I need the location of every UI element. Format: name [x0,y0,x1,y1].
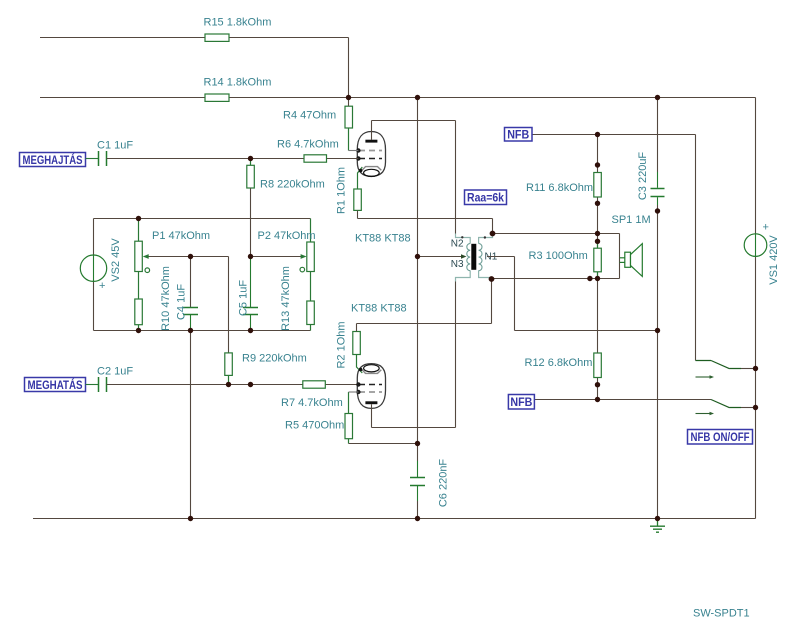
voltage source VS1 420V [744,222,780,285]
node speaker bottom wire-end dot [587,276,592,281]
resistor R4 47Ohm [283,98,358,151]
wire P1 wiper line down to R9 [191,257,229,353]
svg-text:SW-SPDT1: SW-SPDT1 [693,608,750,620]
wire C4 line down to bottom rail [190,331,192,519]
resistor R12 6.8kOhm [525,353,602,378]
node P1 wiper / C4 junction [188,254,193,259]
node bottom rail / C4 column junction [188,516,193,521]
svg-text:KT88 KT88: KT88 KT88 [355,233,411,245]
resistor R8 220kOhm [247,159,325,257]
node B+ rail / ground column junction [655,95,660,100]
resistor R10 47kOhm [135,266,172,331]
node bias bottom rail / C4 junction [188,328,193,333]
wire transformer center tap to B+ [418,254,467,259]
label NFB ON/OFF [688,430,753,445]
node bias bottom rail / C5 junction [248,328,253,333]
node bottom rail / C6 junction [415,516,420,521]
input label MEGHAJTAS [20,152,86,167]
node bias rail / P1 junction [136,216,141,221]
transformer TR1 core [471,244,476,270]
node input2 / R9 junction [226,382,231,387]
svg-text:KT88 KT88: KT88 KT88 [351,303,407,315]
svg-text:C3 220uF: C3 220uF [637,152,649,201]
node rail1/rail2 corner junction [346,95,351,100]
svg-text:R12 6.8kOhm: R12 6.8kOhm [525,357,593,369]
wire input2 to bottom tube grid [107,384,359,386]
wire NFB top run and corner to switch [532,135,696,361]
tube V2 KT88 (bottom) [351,303,407,409]
node R3 bottom / R12 junction [595,276,600,281]
wire bottom tube anode to transformer N3 bottom [372,282,456,428]
wire N1 top to speaker loop [492,234,620,279]
svg-text:R13 47kOhm: R13 47kOhm [280,266,292,331]
resistor R11 6.8kOhm [526,173,601,198]
resistor R7 4.7kOhm [281,381,343,409]
svg-text:C5 1uF: C5 1uF [238,280,250,316]
node input1 / R8 junction [248,156,253,161]
label NFB (bottom box) [508,395,534,410]
wire top rail 1 [40,38,349,98]
capacitor C2 1uF [86,366,134,393]
node R11 top pin [595,162,600,167]
resistor R1 1Ohm [336,167,362,214]
wire P2 wiper line [251,256,304,258]
svg-text:N2: N2 [451,239,464,250]
svg-text:C4 1uF: C4 1uF [176,284,188,320]
svg-text:P1 47kOhm: P1 47kOhm [152,230,210,242]
transformer right winding N1 [479,234,498,280]
capacitor C6 220nF [410,459,450,508]
node R3 chain / speaker top junction [595,231,600,236]
svg-text:R9 220kOhm: R9 220kOhm [242,353,307,365]
wire top tube anode to transformer N2 top [372,121,456,234]
svg-text:NFB: NFB [510,395,532,409]
wire right vertical to VS1 and bottom [755,98,757,519]
svg-text:MEGHATÁS: MEGHATÁS [28,377,83,392]
svg-text:MEGHAJTÁS: MEGHAJTÁS [23,152,83,167]
resistor R5 470Ohm [285,392,358,444]
wire center vertical x=417 (B+ to center tap and C6) [417,98,419,519]
node C3 bottom pin [655,208,660,213]
svg-text:R1 1Ohm: R1 1Ohm [336,167,348,214]
svg-text:+: + [99,280,105,292]
svg-text:R8 220kOhm: R8 220kOhm [260,179,325,191]
svg-text:VS1 420V: VS1 420V [768,235,780,285]
node NFB bottom / R12 junction [595,397,600,402]
wire R1 bottom to N1 top [358,210,493,233]
svg-text:R14 1.8kOhm: R14 1.8kOhm [204,77,272,89]
capacitor C3 220uF [637,152,665,205]
wire bottom rail [33,518,756,520]
svg-text:P2 47kOhm: P2 47kOhm [258,230,316,242]
wire top rail 2 (B+ rail) [40,97,756,99]
svg-text:VS2 45V: VS2 45V [110,238,122,282]
switch SW1 pole B [696,400,742,414]
label NFB (top box) [505,127,533,141]
svg-text:NFB ON/OFF: NFB ON/OFF [691,430,750,444]
node NFB top / R11 junction [595,132,600,137]
svg-text:C2 1uF: C2 1uF [97,366,133,378]
svg-text:R7 4.7kOhm: R7 4.7kOhm [281,397,343,409]
svg-text:NFB: NFB [507,127,529,141]
resistor R9 220kOhm [225,353,307,385]
capacitor C4 1uF [176,257,199,331]
voltage source VS2 45V [80,238,122,292]
wire vertical x=658 (C3 / ground line) [657,98,659,519]
resistor R14 [204,77,272,102]
svg-text:C1 1uF: C1 1uF [97,140,133,152]
transformer left winding N2/N3 [451,234,470,282]
resistor R3 100Ohm [529,241,602,278]
resistor R2 1Ohm [336,321,361,368]
resistor R6 4.7kOhm [277,139,339,163]
svg-text:R10 47kOhm: R10 47kOhm [160,266,172,331]
node bottom rail / ground junction [655,516,660,521]
node input2 wire-end dot [248,382,253,387]
node B+ rail / center column junction [415,95,420,100]
node center tap / B+ column junction [415,254,420,259]
label SW-SPDT1 [693,608,750,620]
node R12 bottom pin [595,382,600,387]
svg-text:R4 47Ohm: R4 47Ohm [283,110,336,122]
node bias bottom rail / R10 junction [136,328,141,333]
wire R5 bottom to x=417 [349,443,418,445]
wire R2 top to N1 bottom [357,279,492,332]
svg-text:Raa=6k: Raa=6k [467,191,504,205]
label Raa=6k [465,190,507,205]
svg-text:R5 470Ohm: R5 470Ohm [285,420,344,432]
potentiometer P1 47kOhm [135,219,210,300]
wire R11/R3/R12 chain vertical x=597.5 [597,135,599,400]
svg-text:N3: N3 [451,259,464,270]
svg-text:+: + [763,222,769,234]
switch SW1 pole A [696,361,742,378]
bias network frame: VS2 rails [94,219,311,331]
svg-text:R2 1Ohm: R2 1Ohm [336,321,348,368]
node R3 top pin [595,239,600,244]
node R11 bottom pin [595,201,600,206]
capacitor C1 1uF [86,140,134,167]
svg-text:C6 220nF: C6 220nF [438,459,450,508]
input label MEGHATAS [25,377,86,392]
speaker SP1 1M [612,214,651,276]
node switch A / right column junction [753,366,758,371]
svg-text:SP1 1M: SP1 1M [612,214,651,226]
svg-text:R6 4.7kOhm: R6 4.7kOhm [277,139,339,151]
capacitor C5 1uF [238,257,259,331]
tube V1 KT88 (top) [355,132,411,245]
ground [650,519,665,533]
wire input1 to tube grid [107,158,359,160]
wire NFB bottom run [534,399,711,401]
node R5 / C6 junction [415,441,420,446]
potentiometer P2 47kOhm [258,219,316,302]
node N1 top junction [490,231,496,237]
node N1 bottom junction [489,276,495,282]
svg-text:R3 100Ohm: R3 100Ohm [529,250,588,262]
svg-text:R11 6.8kOhm: R11 6.8kOhm [526,182,593,194]
node switch B / right column junction [753,405,758,410]
wire N1 tap to x=658 [487,257,658,331]
resistor R13 47kOhm [280,266,314,331]
svg-text:R15 1.8kOhm: R15 1.8kOhm [204,17,272,29]
node P2 wiper / R8 / C5 junction [248,254,253,259]
resistor R15 [204,17,272,42]
node N1 tap / ground column junction [655,328,660,333]
